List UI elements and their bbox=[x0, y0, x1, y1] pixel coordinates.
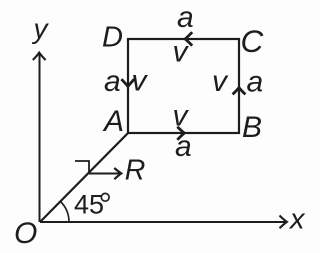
svg-text:v: v bbox=[173, 100, 190, 133]
svg-text:A: A bbox=[102, 105, 124, 138]
vector R arrow bbox=[89, 168, 121, 179]
svg-text:B: B bbox=[242, 111, 262, 144]
svg-text:v: v bbox=[132, 65, 149, 98]
svg-text:x: x bbox=[288, 204, 306, 236]
svg-text:C: C bbox=[241, 23, 264, 59]
svg-text:a: a bbox=[177, 1, 194, 34]
arrow on top edge pointing left bbox=[185, 32, 192, 45]
square ABCD bbox=[128, 39, 239, 133]
arrow on right edge pointing up bbox=[233, 88, 246, 95]
svg-text:y: y bbox=[32, 13, 50, 44]
45 degree arc bbox=[61, 202, 70, 223]
svg-text:45: 45 bbox=[74, 190, 104, 220]
svg-text:D: D bbox=[102, 22, 123, 54]
svg-text:a: a bbox=[104, 65, 121, 98]
svg-text:v: v bbox=[173, 36, 190, 69]
x-axis bbox=[40, 216, 287, 229]
svg-text:a: a bbox=[175, 130, 192, 163]
diagonal OA bbox=[40, 133, 128, 222]
label 45 degrees bbox=[74, 190, 109, 220]
svg-text:v: v bbox=[212, 65, 229, 98]
y-axis bbox=[33, 53, 46, 222]
arrow on bottom edge pointing right bbox=[177, 127, 184, 140]
arrow on left edge pointing down bbox=[121, 79, 134, 86]
svg-text:O: O bbox=[14, 217, 37, 250]
right-angle mark on R bbox=[75, 161, 89, 173]
svg-text:R: R bbox=[125, 155, 146, 187]
svg-text:a: a bbox=[247, 66, 264, 99]
